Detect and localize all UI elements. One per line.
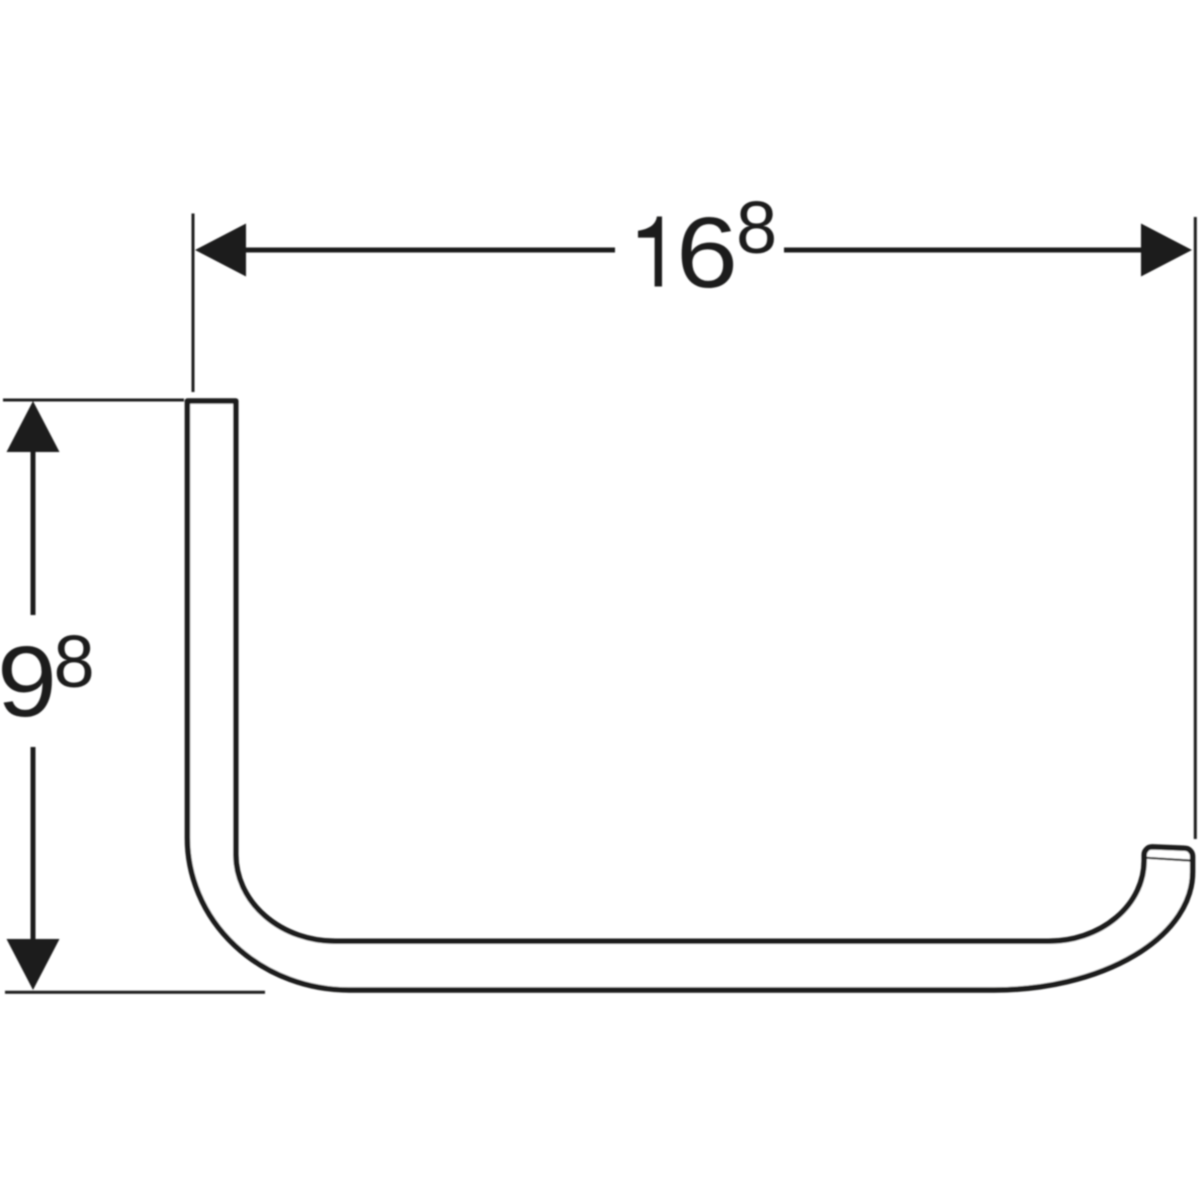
left dimension shaft top [31,450,36,615]
svg-text:9: 9 [0,626,57,738]
top dimension text digit 1 (custom, no foot serif) [638,217,662,287]
top dimension shaft left [244,248,615,253]
extension line top-right [1194,217,1197,839]
top dimension shaft right [784,248,1143,253]
svg-text:8: 8 [54,620,95,703]
rod outline (bent tube silhouette) [187,401,1192,990]
extension line left-bottom [5,991,265,994]
extension line left-top [3,399,184,402]
left dimension shaft bottom [31,747,36,940]
extension line top-left [192,214,195,393]
left dimension up arrow [7,401,60,452]
tube end thin line [1147,858,1191,861]
svg-text:8: 8 [736,186,777,269]
left dimension down arrow [7,939,60,990]
top dimension left arrow [195,224,246,277]
svg-text:6: 6 [676,197,738,309]
top dimension right arrow [1141,224,1192,277]
